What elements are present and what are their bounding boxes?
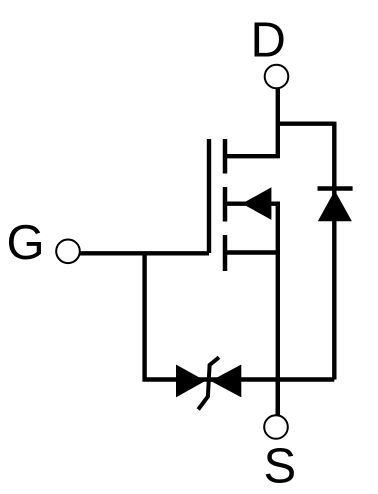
wire drain lead: circle down, branch to body diode, to drain plate <box>225 88 334 379</box>
transistor Q1 gate bar <box>207 139 211 253</box>
transistor Q1 body plate <box>223 187 228 222</box>
zener Z1 right triangle <box>211 365 242 398</box>
wire S lead <box>276 380 280 416</box>
wire gate lead <box>80 251 209 255</box>
wire source plate to source column <box>225 250 278 254</box>
zener Z1 left triangle <box>176 365 205 398</box>
svg-text:G: G <box>7 216 45 270</box>
diode D1 body diode cathode bar <box>318 186 353 190</box>
wire body connection with source column down to S terminal <box>225 204 278 415</box>
terminal circle G <box>56 240 80 264</box>
terminal circle S <box>264 415 288 439</box>
terminal circle D <box>265 65 289 89</box>
svg-text:D: D <box>251 14 286 68</box>
wire gate branch down and bottom source rail <box>145 253 335 380</box>
diode D1 body diode triangle <box>318 191 352 222</box>
transistor Q1 drain plate <box>223 139 228 174</box>
zener Z1 bar with hooks <box>198 357 219 409</box>
transistor Q1 body arrow <box>242 187 271 220</box>
transistor Q1 source plate <box>223 235 228 271</box>
svg-text:S: S <box>264 440 297 494</box>
